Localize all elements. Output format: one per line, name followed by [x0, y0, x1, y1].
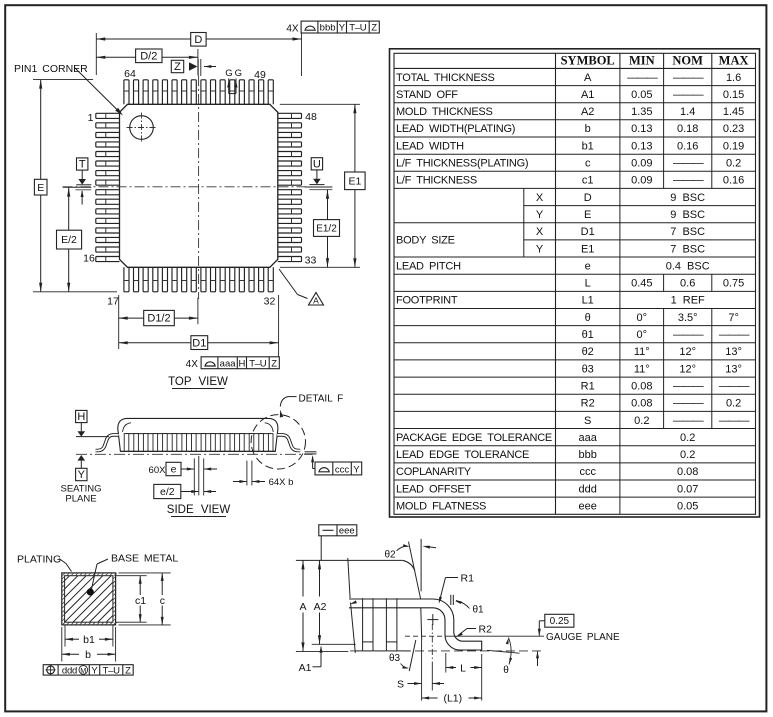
svg-text:D/2: D/2 [140, 51, 157, 63]
dimension 64X b [246, 461, 248, 486]
svg-text:c1: c1 [135, 595, 146, 607]
svg-text:S: S [397, 679, 404, 691]
svg-text:———: ——— [673, 72, 704, 84]
detail F mold corner curve [403, 560, 415, 570]
svg-text:θ3: θ3 [389, 653, 401, 664]
svg-text:A2: A2 [581, 106, 594, 118]
svg-text:———: ——— [673, 381, 704, 393]
svg-text:MOLD THICKNESS: MOLD THICKNESS [396, 106, 493, 118]
svg-text:G: G [225, 68, 232, 79]
svg-text:PLATING: PLATING [17, 554, 61, 566]
datum Z flag (top) [171, 60, 183, 72]
detail F mold top line [296, 559, 403, 561]
svg-text:SYMBOL: SYMBOL [561, 54, 615, 68]
svg-text:———: ——— [673, 89, 704, 101]
svg-text:1.4: 1.4 [680, 106, 695, 118]
svg-text:60X: 60X [149, 465, 167, 476]
top pins (64..49) [124, 80, 129, 105]
svg-text:0°: 0° [637, 312, 648, 324]
svg-text:1.35: 1.35 [631, 106, 652, 118]
svg-text:eee: eee [339, 526, 355, 537]
dimension e/2 [154, 484, 181, 498]
svg-text:MOLD FLATNESS: MOLD FLATNESS [396, 501, 486, 513]
svg-text:L/F THICKNESS(PLATING): L/F THICKNESS(PLATING) [396, 158, 528, 170]
svg-text:11°: 11° [634, 363, 650, 375]
svg-text:0.15: 0.15 [723, 89, 744, 101]
svg-text:STAND OFF: STAND OFF [396, 89, 458, 101]
svg-text:E1: E1 [348, 175, 361, 187]
side view package bottom line [120, 450, 275, 452]
svg-text:e: e [585, 260, 591, 272]
mold bottom extension [312, 643, 356, 645]
svg-text:0.2: 0.2 [680, 432, 695, 444]
svg-text:0.2: 0.2 [680, 449, 695, 461]
svg-text:0.16: 0.16 [723, 175, 744, 187]
svg-text:A: A [299, 601, 306, 613]
svg-text:D: D [584, 192, 592, 204]
svg-text:7 BSC: 7 BSC [670, 243, 705, 255]
svg-text:c: c [585, 158, 591, 170]
svg-text:64: 64 [124, 68, 136, 80]
svg-text:X: X [536, 192, 544, 204]
table header row [555, 53, 557, 514]
svg-text:G: G [235, 68, 242, 79]
svg-text:0.09: 0.09 [631, 158, 652, 170]
dimension 60X e [193, 458, 195, 495]
plating section: inner square (base metal) [65, 576, 113, 623]
svg-text:b: b [85, 649, 91, 661]
svg-text:bbb: bbb [320, 23, 336, 34]
svg-text:PIN1 CORNER: PIN1 CORNER [14, 63, 88, 75]
svg-text:TOP VIEW: TOP VIEW [168, 376, 228, 388]
side view front lead row [124, 434, 273, 452]
svg-text:A: A [584, 72, 592, 84]
svg-text:NOM: NOM [672, 54, 703, 68]
svg-text:θ3: θ3 [582, 363, 594, 375]
svg-text:0.19: 0.19 [723, 140, 744, 152]
seating extension [296, 650, 348, 652]
position tolerance callout ddd M Y T-U Z [43, 665, 133, 675]
svg-text:T–U: T–U [249, 358, 266, 369]
svg-text:SIDE VIEW: SIDE VIEW [167, 504, 231, 516]
svg-text:E: E [37, 182, 44, 194]
svg-text:13°: 13° [725, 363, 742, 375]
dimension c1 [116, 575, 147, 577]
svg-text:0.05: 0.05 [677, 501, 698, 513]
svg-text:0.45: 0.45 [631, 278, 652, 290]
svg-text:0.6: 0.6 [680, 278, 695, 290]
dimension D/2 [197, 49, 199, 75]
svg-text:0.18: 0.18 [677, 123, 698, 135]
svg-text:0.07: 0.07 [677, 483, 698, 495]
side view mold body [118, 418, 278, 451]
vertical centerline [198, 76, 200, 299]
side view right gull lead [277, 435, 300, 451]
svg-text:1.6: 1.6 [726, 72, 741, 84]
svg-text:12°: 12° [679, 363, 696, 375]
svg-text:A: A [313, 296, 319, 306]
revision triangle A with leader [279, 269, 298, 295]
svg-text:E1/2: E1/2 [316, 223, 337, 234]
svg-text:64X b: 64X b [269, 477, 294, 488]
svg-text:0.13: 0.13 [631, 123, 652, 135]
svg-text:7 BSC: 7 BSC [670, 226, 705, 238]
dimension L [445, 653, 447, 673]
svg-text:R1: R1 [581, 381, 595, 393]
svg-text:T: T [79, 159, 86, 171]
table inner border [394, 53, 756, 514]
svg-text:0.16: 0.16 [677, 140, 698, 152]
svg-text:H: H [77, 411, 85, 423]
bottom pins (17..32) [124, 267, 129, 292]
DETAIL F label and circle [251, 415, 305, 469]
theta2 slant line [409, 542, 421, 599]
svg-text:0.08: 0.08 [677, 466, 698, 478]
left pins (1..16) [96, 113, 120, 118]
svg-text:E1: E1 [581, 243, 594, 255]
svg-text:0.2: 0.2 [726, 398, 741, 410]
svg-text:L1: L1 [582, 295, 594, 307]
svg-text:11°: 11° [634, 346, 650, 358]
svg-text:θ2: θ2 [384, 549, 396, 560]
svg-text:L/F THICKNESS: L/F THICKNESS [396, 175, 477, 187]
svg-text:0.75: 0.75 [723, 278, 744, 290]
svg-text:bbb: bbb [579, 449, 597, 461]
svg-text:D: D [194, 34, 202, 46]
svg-text:T–U: T–U [103, 665, 120, 676]
svg-text:———: ——— [673, 415, 704, 427]
seating plane (detail) [350, 650, 545, 652]
right pins (48..33) [278, 113, 302, 118]
plating section: outer square [62, 573, 116, 625]
svg-text:———: ——— [673, 175, 704, 187]
theta2 arrow [427, 547, 437, 548]
svg-text:aaa: aaa [220, 358, 237, 369]
svg-text:0.4 BSC: 0.4 BSC [666, 260, 710, 272]
svg-text:MAX: MAX [719, 54, 749, 68]
svg-text:LEAD WIDTH(PLATING): LEAD WIDTH(PLATING) [396, 123, 515, 135]
svg-text:U: U [313, 159, 321, 171]
dimension E1/2 [327, 190, 329, 220]
svg-text:Y: Y [536, 243, 544, 255]
svg-text:9 BSC: 9 BSC [670, 192, 705, 204]
svg-text:48: 48 [305, 111, 317, 123]
gauge plane line [405, 635, 446, 637]
svg-text:L: L [585, 278, 591, 290]
adjacent lead bars [362, 598, 364, 651]
svg-text:9 BSC: 9 BSC [670, 209, 705, 221]
svg-text:12°: 12° [679, 346, 696, 358]
theta2 vertical reference [420, 539, 422, 592]
datum Y flag [78, 455, 86, 461]
detail F mold side slant [351, 603, 356, 653]
svg-text:GAUGE PLANE: GAUGE PLANE [546, 632, 620, 643]
svg-text:θ1: θ1 [582, 329, 594, 341]
svg-text:0.13: 0.13 [631, 140, 652, 152]
svg-text:X: X [536, 226, 544, 238]
side view left gull lead [96, 435, 119, 451]
svg-text:13°: 13° [725, 346, 742, 358]
svg-text:c1: c1 [582, 175, 594, 187]
svg-text:1.45: 1.45 [723, 106, 744, 118]
dimension S [421, 640, 423, 701]
svg-text:Z: Z [125, 665, 131, 676]
svg-text:θ: θ [585, 312, 591, 324]
dimension c [119, 572, 171, 574]
svg-text:1: 1 [88, 112, 94, 124]
datum H flag [76, 410, 87, 422]
svg-text:θ1: θ1 [472, 605, 484, 616]
flatness callout eee [319, 525, 357, 536]
svg-text:ccc: ccc [579, 466, 596, 478]
svg-text:———: ——— [673, 398, 704, 410]
svg-text:———: ——— [719, 381, 750, 393]
svg-text:aaa: aaa [579, 432, 598, 444]
detail F lead cross-section [349, 599, 482, 650]
svg-text:0.08: 0.08 [631, 398, 652, 410]
svg-text:FOOTPRINT: FOOTPRINT [396, 295, 458, 307]
svg-text:R2: R2 [479, 624, 493, 636]
dimension E1 [280, 103, 360, 105]
datum U flag (right) [311, 158, 322, 170]
svg-text:BODY SIZE: BODY SIZE [396, 235, 455, 247]
theta1 vertical tick [450, 595, 452, 605]
svg-text:0.23: 0.23 [723, 123, 744, 135]
svg-text:MIN: MIN [629, 54, 655, 68]
bars bottom line [355, 650, 410, 652]
svg-text:0.05: 0.05 [631, 89, 652, 101]
flatness callout ccc Y [305, 451, 317, 453]
svg-text:R2: R2 [581, 398, 595, 410]
svg-text:D1: D1 [581, 226, 595, 238]
0.25 box [545, 614, 574, 627]
svg-text:0.2: 0.2 [634, 415, 649, 427]
svg-text:θ: θ [503, 665, 509, 676]
svg-text:E: E [584, 209, 591, 221]
svg-text:17: 17 [107, 296, 119, 308]
svg-text:b1: b1 [83, 634, 95, 646]
svg-text:b1: b1 [582, 140, 594, 152]
svg-text:M: M [80, 666, 86, 675]
svg-text:Y: Y [78, 469, 86, 481]
svg-text:ccc: ccc [335, 465, 350, 476]
svg-text:Z: Z [371, 23, 377, 34]
svg-text:(L1): (L1) [443, 693, 462, 705]
svg-text:0.08: 0.08 [631, 381, 652, 393]
svg-text:———: ——— [673, 158, 704, 170]
svg-text:4X: 4X [286, 24, 299, 35]
dimension A2 [319, 560, 321, 596]
seating plane line [76, 453, 313, 455]
svg-text:T–U: T–U [349, 23, 366, 34]
svg-text:A1: A1 [299, 662, 312, 674]
svg-text:———: ——— [719, 415, 750, 427]
svg-text:0.09: 0.09 [631, 175, 652, 187]
svg-text:———: ——— [627, 72, 658, 84]
svg-text:ddd: ddd [579, 483, 597, 495]
svg-text:3.5°: 3.5° [678, 312, 698, 324]
svg-text:LEAD EDGE TOLERANCE: LEAD EDGE TOLERANCE [396, 449, 529, 461]
svg-text:Z: Z [271, 358, 277, 369]
svg-text:16: 16 [83, 253, 95, 265]
svg-text:DETAIL F: DETAIL F [299, 393, 344, 404]
svg-text:c: c [160, 595, 165, 607]
svg-text:R1: R1 [461, 573, 475, 585]
svg-text:D1: D1 [192, 337, 206, 349]
svg-text:4X: 4X [186, 359, 199, 370]
table cell text [396, 72, 749, 513]
svg-text:θ2: θ2 [582, 346, 594, 358]
svg-text:A2: A2 [314, 601, 327, 613]
theta angle [487, 650, 520, 653]
svg-text:TOTAL THICKNESS: TOTAL THICKNESS [396, 72, 495, 84]
svg-text:b: b [585, 123, 591, 135]
svg-text:e/2: e/2 [160, 486, 175, 498]
theta3 slant [409, 640, 416, 671]
svg-text:COPLANARITY: COPLANARITY [396, 466, 472, 478]
svg-text:49: 49 [254, 69, 266, 81]
svg-text:H: H [238, 358, 245, 369]
svg-text:e: e [171, 464, 177, 476]
svg-text:D1/2: D1/2 [147, 313, 170, 325]
svg-text:L: L [460, 662, 466, 674]
svg-text:PLANE: PLANE [65, 494, 96, 505]
svg-text:LEAD OFFSET: LEAD OFFSET [396, 483, 471, 495]
svg-text:0°: 0° [637, 329, 648, 341]
svg-text:32: 32 [264, 296, 276, 308]
svg-text:ddd: ddd [62, 665, 77, 676]
svg-text:LEAD PITCH: LEAD PITCH [396, 260, 461, 272]
table outer border [390, 49, 760, 517]
svg-text:7°: 7° [728, 312, 739, 324]
svg-text:LEAD WIDTH: LEAD WIDTH [396, 140, 464, 152]
dimension D1/2 [197, 298, 199, 324]
svg-text:Y: Y [339, 23, 346, 34]
side view mold inner arcs [123, 423, 132, 432]
dimension b [61, 627, 63, 662]
pin1 circle marker [130, 116, 154, 140]
svg-text:Y: Y [536, 209, 544, 221]
dimension E [33, 79, 93, 81]
svg-text:eee: eee [579, 501, 597, 513]
dimension D1 [118, 295, 120, 349]
svg-text:0.2: 0.2 [726, 158, 741, 170]
svg-text:0.25: 0.25 [550, 616, 570, 627]
dimension b1 [64, 625, 66, 647]
plating ring ticks [62, 573, 117, 625]
bend radius center mark [427, 619, 438, 621]
dimension E/2 [68, 188, 70, 231]
dimension A [296, 559, 342, 561]
svg-text:———: ——— [719, 329, 750, 341]
svg-text:Y: Y [353, 465, 360, 476]
svg-text:———: ——— [673, 329, 704, 341]
table grid lines [394, 68, 756, 514]
svg-text:A1: A1 [581, 89, 594, 101]
svg-text:BASE METAL: BASE METAL [111, 553, 178, 565]
package body outline (top view) [120, 104, 278, 267]
horizontal centerline [63, 186, 307, 188]
svg-text:Y: Y [91, 665, 98, 676]
svg-text:1 REF: 1 REF [671, 295, 705, 307]
datum T flag (left) [77, 158, 88, 170]
svg-text:E/2: E/2 [61, 234, 77, 246]
svg-text:33: 33 [305, 255, 317, 267]
svg-text:Z: Z [174, 61, 181, 73]
dimension D [95, 33, 97, 75]
svg-text:PACKAGE EDGE TOLERANCE: PACKAGE EDGE TOLERANCE [396, 432, 552, 444]
svg-text:S: S [584, 415, 591, 427]
